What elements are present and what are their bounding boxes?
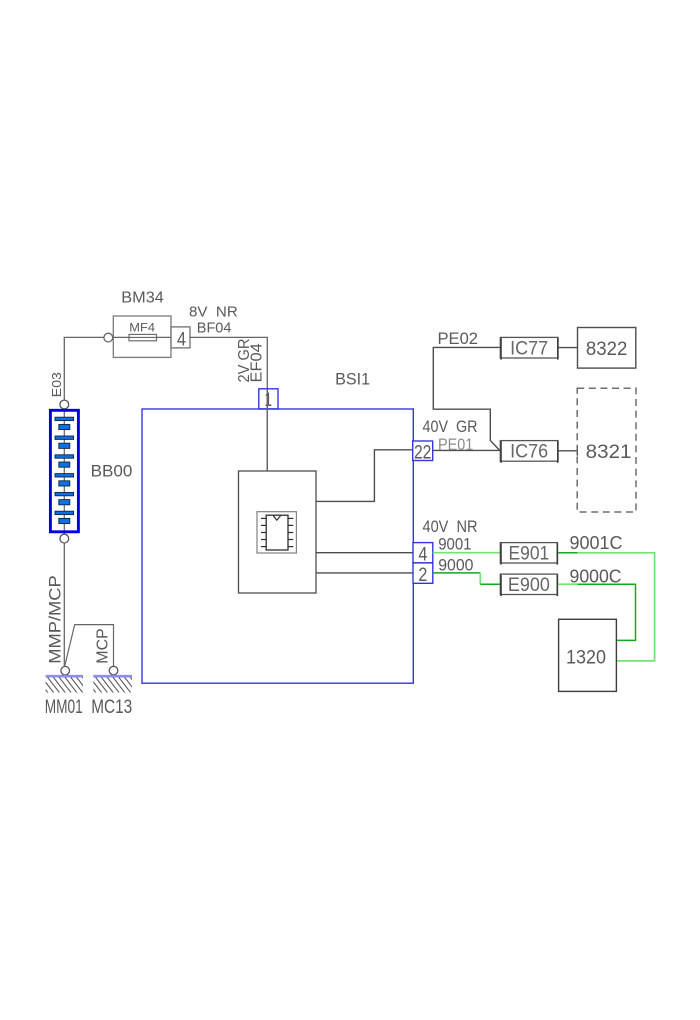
pin 4 of BM34 bbox=[171, 327, 190, 350]
wire 9001C E901 to 1320 bbox=[558, 553, 655, 661]
wire: BM34 pin 4 to BSI1 pin 1 bbox=[190, 337, 267, 471]
battery BB00 bbox=[50, 410, 78, 532]
wire: fuse wire through BM34 bbox=[104, 336, 172, 338]
svg-text:BB00: BB00 bbox=[91, 463, 133, 481]
wire: battery negative down to ground MM01 bbox=[63, 543, 65, 666]
svg-text:MCP: MCP bbox=[94, 628, 111, 663]
wire: battery positive to fuse box BM34 bbox=[64, 337, 104, 400]
wire pin1 to internal module bbox=[266, 389, 268, 471]
wire module to pin 4 bbox=[316, 552, 413, 554]
pin 22 of BSI1 bbox=[413, 441, 433, 463]
connector circle at MC13 bbox=[109, 666, 118, 675]
svg-text:MC13: MC13 bbox=[91, 697, 132, 718]
connector circle at MM01 bbox=[61, 666, 70, 675]
svg-text:40V NR: 40V NR bbox=[423, 517, 478, 536]
svg-text:9001C: 9001C bbox=[570, 533, 623, 553]
connector circle battery top bbox=[60, 400, 69, 409]
fuse MF4 bbox=[129, 334, 157, 340]
fuse box BM34 bbox=[113, 316, 171, 357]
ground MC13 bbox=[84, 676, 142, 693]
ECU box BSI1 bbox=[142, 409, 413, 683]
connector circle battery bottom bbox=[60, 534, 69, 543]
wire IC77 to 8322 bbox=[559, 347, 578, 349]
svg-text:E03: E03 bbox=[50, 372, 64, 397]
wire 9001 pin4 to E901 bbox=[433, 552, 501, 554]
wire IC76 to 8321 bbox=[559, 446, 578, 456]
pin 2 of BSI1 bbox=[413, 563, 433, 586]
wire through battery bbox=[63, 409, 65, 534]
wire module to pin 2 bbox=[316, 572, 413, 574]
wire PE02 branch bbox=[433, 347, 500, 450]
svg-text:BSI1: BSI1 bbox=[335, 371, 370, 389]
ground MM01 bbox=[36, 676, 94, 693]
wire: branch to ground MC13 bbox=[65, 625, 114, 667]
svg-text:8322: 8322 bbox=[586, 339, 628, 360]
svg-text:9000: 9000 bbox=[438, 555, 473, 574]
wire 9000C E900 to 1320 bbox=[558, 584, 635, 640]
connector IC77 bbox=[500, 337, 558, 359]
svg-text:MM01: MM01 bbox=[45, 697, 83, 718]
svg-text:PE01: PE01 bbox=[438, 435, 473, 454]
svg-text:9001: 9001 bbox=[438, 534, 471, 553]
wire pin 22 to IC76 bbox=[433, 449, 500, 451]
svg-text:E900: E900 bbox=[508, 575, 550, 596]
svg-text:MMP/MCP: MMP/MCP bbox=[46, 575, 65, 663]
connector circle at BM34 input bbox=[104, 333, 113, 342]
svg-text:BM34: BM34 bbox=[121, 290, 164, 307]
svg-text:2: 2 bbox=[418, 565, 427, 586]
svg-text:IC77: IC77 bbox=[510, 338, 548, 359]
svg-text:EF04: EF04 bbox=[248, 343, 265, 382]
svg-text:IC76: IC76 bbox=[510, 442, 548, 463]
svg-text:1320: 1320 bbox=[566, 647, 606, 668]
pin 1 of BSI1 bbox=[259, 389, 278, 411]
svg-text:8321: 8321 bbox=[586, 442, 632, 463]
svg-text:40V GR: 40V GR bbox=[423, 417, 478, 436]
wire module to pin 22 bbox=[316, 450, 413, 502]
svg-text:PE02: PE02 bbox=[438, 329, 479, 348]
connector E900 bbox=[500, 574, 557, 596]
device 8322 bbox=[578, 328, 636, 369]
device 8321 (dashed) bbox=[577, 388, 636, 512]
internal module box bbox=[239, 471, 317, 593]
svg-text:1: 1 bbox=[264, 390, 272, 411]
svg-text:4: 4 bbox=[177, 329, 186, 350]
IC chip symbol bbox=[257, 512, 296, 553]
svg-text:BF04: BF04 bbox=[197, 319, 232, 336]
connector E901 bbox=[500, 543, 557, 565]
pin 4 of BSI1 bbox=[413, 543, 433, 566]
svg-text:22: 22 bbox=[414, 442, 432, 463]
wire 9000 pin2 to E900 bbox=[433, 573, 501, 584]
connector IC76 bbox=[500, 441, 558, 463]
svg-text:MF4: MF4 bbox=[129, 321, 155, 335]
svg-text:8V NR: 8V NR bbox=[189, 303, 238, 320]
device 1320 bbox=[559, 619, 617, 691]
svg-text:E901: E901 bbox=[509, 544, 550, 565]
